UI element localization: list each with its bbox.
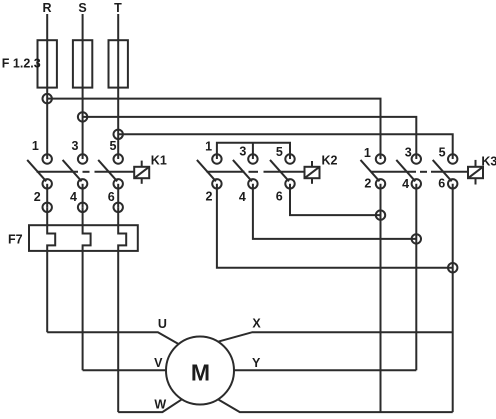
svg-text:K1: K1 <box>151 153 167 167</box>
wire K1-2 to F7 <box>46 184 48 208</box>
node L3 junction <box>114 130 123 139</box>
node F7 terminal 3 <box>114 203 123 212</box>
svg-text:X: X <box>252 317 261 331</box>
wire K2-4 to node B <box>253 184 416 239</box>
node C junction <box>448 263 457 272</box>
node F7 terminal 2 <box>78 203 87 212</box>
wire K3-6 down to Z corner <box>452 184 454 412</box>
svg-text:K3: K3 <box>481 155 496 169</box>
F7 heater element 2 and wire to V <box>83 207 91 370</box>
svg-text:V: V <box>154 356 163 370</box>
fuse F1 <box>38 40 57 87</box>
contactor K3 pole 1-2 <box>361 154 386 188</box>
svg-text:4: 4 <box>70 190 77 204</box>
wire K3-2 down to Z line <box>380 184 382 412</box>
svg-text:Y: Y <box>252 356 261 370</box>
overload relay F7 box <box>29 225 138 251</box>
wire phase T <box>117 14 119 159</box>
svg-text:6: 6 <box>108 190 115 204</box>
fuse F3 <box>109 40 128 87</box>
svg-text:1: 1 <box>205 140 212 154</box>
wire bus L1 <box>47 99 380 159</box>
svg-text:5: 5 <box>276 145 283 159</box>
wire phase S <box>82 14 84 159</box>
wire motor lead Z <box>219 400 453 413</box>
coil K2 <box>305 161 320 184</box>
svg-text:3: 3 <box>239 145 246 159</box>
actuation link K3 <box>371 171 469 173</box>
contactor K2 pole 5-6 <box>270 154 295 188</box>
wire K2-2 to node C <box>217 184 453 268</box>
svg-text:3: 3 <box>405 146 412 160</box>
wire K1-4 to F7 <box>82 184 84 208</box>
svg-text:1: 1 <box>32 139 39 153</box>
wire K1-6 to F7 <box>117 184 119 208</box>
svg-text:2: 2 <box>206 190 213 204</box>
node L2 junction <box>78 112 87 121</box>
node F7 terminal 1 <box>43 203 52 212</box>
wire K3-4 down to Y line <box>415 184 417 370</box>
wire motor lead W <box>118 399 182 412</box>
actuation link K1 <box>37 171 135 173</box>
wire motor lead Y <box>234 369 416 371</box>
svg-text:K2: K2 <box>322 153 338 167</box>
svg-text:4: 4 <box>402 177 409 191</box>
wire motor lead U <box>47 332 178 344</box>
svg-text:3: 3 <box>72 139 79 153</box>
actuation link K2 <box>207 171 305 173</box>
contactor K1 pole 1-2 <box>27 154 52 188</box>
wire bus L2 <box>83 117 417 159</box>
wire motor lead V <box>83 369 167 371</box>
contactor K2 star bridge <box>217 143 290 159</box>
svg-text:S: S <box>78 1 86 15</box>
fuse F2 <box>73 40 92 87</box>
svg-text:6: 6 <box>276 190 283 204</box>
node B junction <box>412 234 421 243</box>
wire bus L3 <box>118 134 453 159</box>
svg-text:6: 6 <box>438 177 445 191</box>
contactor K1 pole 3-4 <box>63 154 88 188</box>
svg-text:T: T <box>114 1 122 15</box>
svg-text:R: R <box>42 1 51 15</box>
svg-text:U: U <box>158 317 167 331</box>
contactor K3 pole 5-6 <box>433 154 458 188</box>
coil K1 <box>134 161 149 184</box>
svg-text:2: 2 <box>364 177 371 191</box>
svg-text:4: 4 <box>239 190 246 204</box>
wire motor lead X <box>218 332 453 342</box>
node L1 junction <box>43 94 52 103</box>
svg-text:2: 2 <box>34 190 41 204</box>
contactor K3 pole 3-4 <box>396 154 421 188</box>
contactor K2 pole 1-2 <box>197 154 222 188</box>
contactor K2 pole 3-4 <box>233 154 258 188</box>
svg-text:W: W <box>154 397 166 411</box>
svg-text:F7: F7 <box>8 233 23 247</box>
svg-text:5: 5 <box>439 146 446 160</box>
F7 heater element 3 and wire to W <box>118 207 126 412</box>
coil K3 <box>468 160 483 185</box>
svg-text:M: M <box>191 359 210 385</box>
svg-text:F 1.2.3: F 1.2.3 <box>2 57 41 71</box>
F7 heater element 1 and wire to U <box>47 207 55 332</box>
wire K2-6 to node A <box>290 184 381 215</box>
wire phase R <box>46 14 48 159</box>
contactor K1 pole 5-6 <box>98 154 123 188</box>
motor M1 <box>166 337 234 405</box>
svg-text:1: 1 <box>364 146 371 160</box>
node A junction <box>376 210 385 219</box>
svg-text:5: 5 <box>110 139 117 153</box>
